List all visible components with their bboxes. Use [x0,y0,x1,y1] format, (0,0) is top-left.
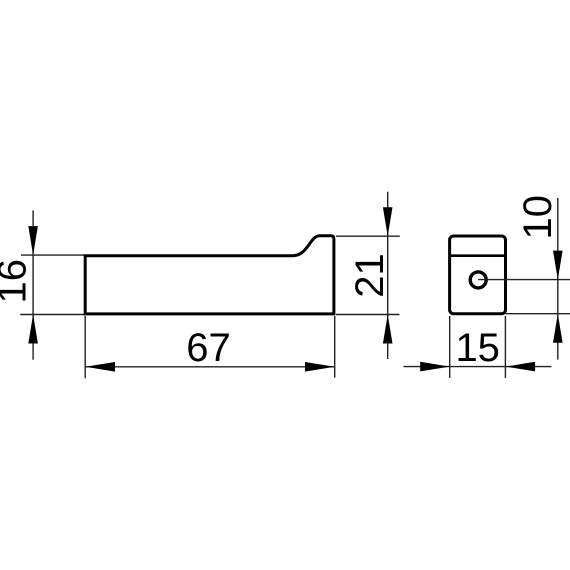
extension line 21 bottom [336,314,399,316]
extension line 67 right [334,316,336,378]
svg-text:67: 67 [186,326,231,370]
arrow 67 right [305,362,335,372]
end view body [450,236,506,314]
svg-text:10: 10 [516,195,560,240]
dimension line 16 [32,210,34,359]
svg-text:21: 21 [348,253,392,298]
end view bottom extension line [506,313,570,315]
dimension line 10 [557,198,559,360]
arrow 10 top [553,251,563,280]
extension line 16 bottom [20,314,85,316]
arrow 21 top [383,207,393,236]
side view body [85,236,334,314]
extension line 67 left [84,316,86,378]
extension line 15 left [449,316,451,378]
extension line 16 top [21,254,85,256]
dimension line 15 [404,366,552,368]
extension line 15 right [504,316,506,378]
arrow 16 top [28,226,38,255]
arrow 67 left [85,362,115,372]
end view edge line [450,254,506,257]
dimension line 21 [387,192,389,359]
arrow 16 bottom [28,315,38,344]
arrow 21 bottom [383,315,393,344]
arrow 15 left [420,362,450,372]
extension line 21 top [336,235,400,237]
svg-text:15: 15 [455,326,500,370]
svg-text:16: 16 [0,259,35,304]
dimension line 67 [85,366,335,368]
arrow 15 right [506,362,535,372]
hole centre line [478,279,570,281]
arrow 10 bottom [553,314,563,343]
hole [470,272,486,288]
